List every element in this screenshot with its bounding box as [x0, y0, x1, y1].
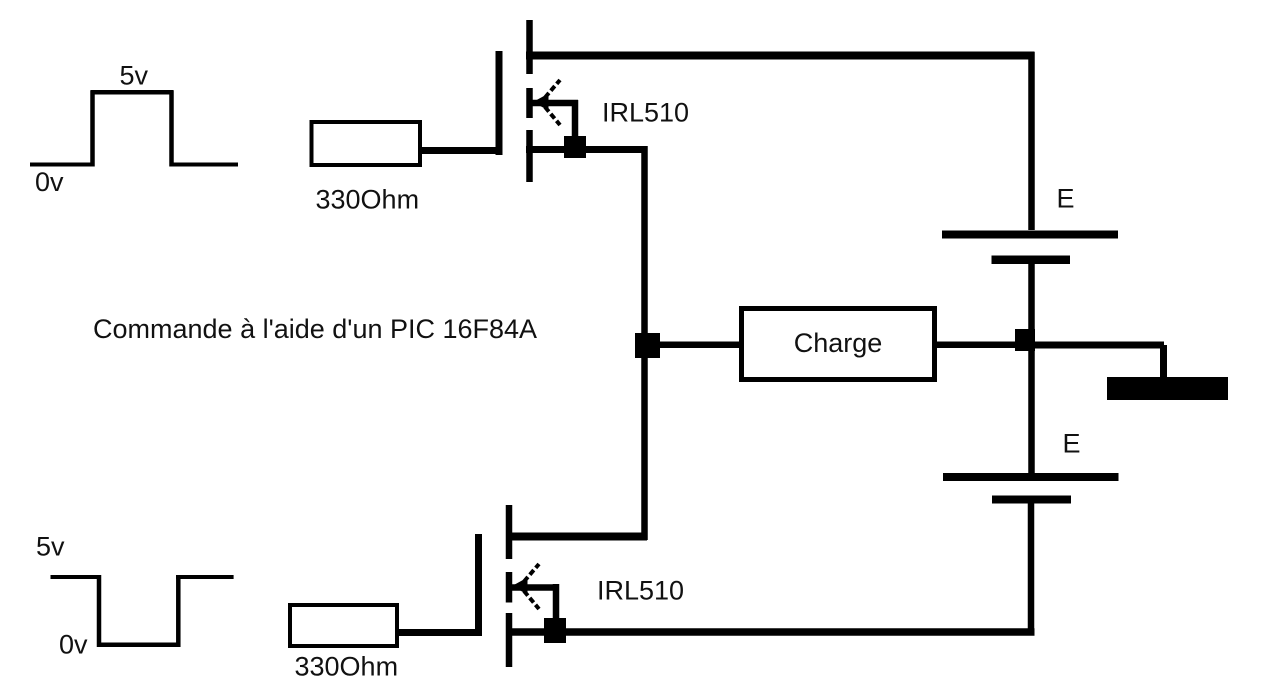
- waveform W2 high level right segment: [176, 575, 234, 579]
- wire battery bottom vertical: [1028, 504, 1035, 636]
- waveform W2 rising edge: [176, 575, 181, 647]
- wire battery top vertical: [1028, 52, 1035, 230]
- svg-text:E: E: [1063, 429, 1081, 459]
- wire Charge to right junction: [936, 341, 1031, 348]
- svg-text:E: E: [1057, 184, 1075, 214]
- wire Q2 body vertical to source: [553, 584, 560, 632]
- waveform W2 low level (0v): [97, 643, 180, 648]
- svg-text:5v: 5v: [36, 532, 65, 562]
- waveform W1 baseline left segment (0v): [30, 163, 93, 167]
- wire Q1 body horizontal: [529, 100, 578, 107]
- svg-text:IRL510: IRL510: [597, 576, 684, 606]
- transistor Q2 channel segment top: [506, 505, 513, 559]
- waveform W1 baseline right segment: [171, 163, 238, 167]
- svg-text:5v: 5v: [120, 61, 149, 91]
- transistor Q2 channel segment middle: [506, 572, 513, 603]
- svg-text:330Ohm: 330Ohm: [316, 185, 420, 215]
- transistor Q1 channel segment bottom: [526, 130, 533, 182]
- wire junction to ground horizontal: [1031, 342, 1164, 349]
- load Charge box: [742, 309, 935, 380]
- battery E2 negative plate: [992, 496, 1071, 504]
- waveform W1 falling edge: [169, 91, 174, 167]
- svg-text:330Ohm: 330Ohm: [295, 652, 399, 682]
- wire Q1 body vertical to source: [572, 100, 579, 150]
- wire midpoint to Charge: [647, 341, 740, 348]
- svg-text:Charge: Charge: [794, 328, 883, 358]
- waveform W2 falling edge: [97, 575, 102, 647]
- wire R1 to Q1 gate: [420, 147, 503, 154]
- battery E1 negative plate: [992, 256, 1071, 265]
- wire Q1 source horizontal: [526, 146, 648, 153]
- resistor R2 330Ohm body: [290, 605, 397, 646]
- transistor Q1 gate line: [496, 51, 503, 155]
- transistor Q2 channel segment bottom: [506, 613, 513, 667]
- junction Q1 source node: [564, 136, 586, 158]
- transistor Q2 gate line: [475, 534, 482, 636]
- waveform W1 rising edge: [90, 91, 95, 167]
- wire Q1 drain to battery top: [526, 52, 1035, 60]
- wire Q2 source to battery bottom: [506, 628, 1035, 636]
- waveform W2 high level left segment: [51, 575, 102, 579]
- transistor Q1 channel segment middle: [526, 88, 533, 118]
- svg-text:0v: 0v: [35, 167, 64, 197]
- junction battery midpoint node: [1015, 329, 1035, 351]
- svg-text:IRL510: IRL510: [602, 98, 689, 128]
- ground bar: [1107, 377, 1228, 400]
- svg-text:0v: 0v: [59, 630, 88, 660]
- battery E1 positive plate: [942, 231, 1118, 239]
- wire R2 to Q2 gate: [397, 629, 482, 636]
- junction Q2 source node: [544, 618, 566, 643]
- wire between batteries vertical: [1028, 264, 1035, 473]
- transistor Q1 body arrow: [533, 80, 560, 125]
- waveform W1 pulse top (5v level): [91, 90, 174, 95]
- transistor Q1 channel segment top: [526, 20, 533, 74]
- wire Q2 drain horizontal: [506, 533, 647, 541]
- wire ground vertical: [1160, 345, 1167, 378]
- wire midpoint vertical (Q1 source to Q2 drain): [641, 146, 648, 540]
- battery E2 positive plate: [943, 473, 1119, 481]
- svg-text:Commande à l'aide d'un PIC 16F: Commande à l'aide d'un PIC 16F84A: [93, 314, 537, 344]
- junction midpoint node: [635, 333, 660, 358]
- resistor R1 330Ohm body: [312, 122, 421, 165]
- transistor Q2 body arrow: [512, 564, 539, 609]
- wire Q2 body horizontal: [509, 584, 559, 591]
